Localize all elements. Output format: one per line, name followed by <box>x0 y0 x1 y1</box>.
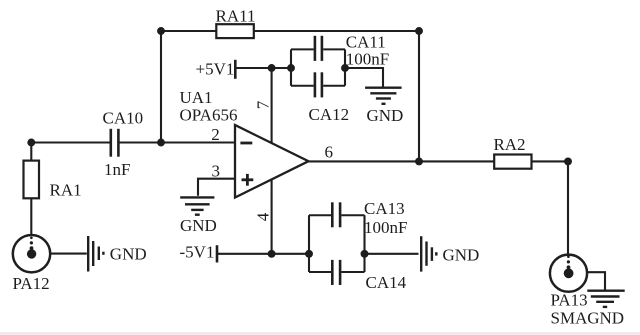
wire: RA1 vertical <box>30 143 32 236</box>
svg-text:CA10: CA10 <box>103 108 144 127</box>
capacitor CA12 <box>291 72 349 124</box>
svg-text:PA12: PA12 <box>13 274 50 293</box>
svg-text:GND: GND <box>180 216 217 235</box>
svg-text:6: 6 <box>325 142 334 161</box>
bottom scan band <box>0 332 640 335</box>
wire: PA12 shield stub <box>50 253 87 255</box>
node: top-left junction <box>157 27 165 35</box>
+5V1 supply terminal <box>196 59 236 78</box>
wire: pin 7 vertical <box>271 68 273 144</box>
ground right of PA12 (sideways) <box>88 236 103 272</box>
wire: top ground branch <box>345 68 383 87</box>
resistor RA1 <box>24 161 82 200</box>
node: inverting input junction <box>157 139 165 147</box>
svg-text:RA11: RA11 <box>216 7 256 26</box>
connector PA12 <box>13 235 51 293</box>
ground SMA GND (below PA13 stub) <box>587 291 624 307</box>
svg-text:PA13: PA13 <box>551 291 588 310</box>
node: top-right junction <box>415 27 423 35</box>
wire: input segment left of CA10 <box>31 141 110 143</box>
capacitor CA10 <box>103 108 144 179</box>
wire: pin 4 vertical <box>271 179 273 254</box>
wire: PA13 vertical drop <box>567 161 569 254</box>
svg-text:UA1: UA1 <box>180 88 213 107</box>
svg-text:CA14: CA14 <box>366 273 407 292</box>
node: -5V pin4 junction <box>268 250 276 258</box>
capacitor CA14 <box>309 260 407 292</box>
wire: PA13 shield stub <box>587 272 605 290</box>
ground below pin 3 <box>180 197 214 214</box>
svg-text:CA13: CA13 <box>364 199 405 218</box>
node: CA13 left bus junction <box>305 250 313 258</box>
wire: feedback left vertical <box>160 31 162 143</box>
node: CA11 right bus junction <box>341 64 349 72</box>
svg-text:RA2: RA2 <box>493 135 525 154</box>
svg-text:CA12: CA12 <box>309 105 350 124</box>
svg-text:3: 3 <box>212 161 221 180</box>
node: input junction <box>27 139 35 147</box>
wire: output pin 6 <box>308 160 568 162</box>
ground top (near CA11) <box>365 88 402 104</box>
wire: CA11/CA12 right bus <box>344 49 346 85</box>
resistor RA2 <box>493 135 531 169</box>
svg-text:2: 2 <box>211 125 220 144</box>
wire: right vertical bus <box>418 31 420 161</box>
node: RA2 output junction <box>564 157 572 165</box>
svg-text:100nF: 100nF <box>346 50 389 69</box>
connector PA13 <box>550 255 624 328</box>
node: +5V pin7 junction <box>268 64 276 72</box>
svg-text:-5V1: -5V1 <box>180 243 215 262</box>
svg-text:GND: GND <box>587 309 624 328</box>
svg-text:RA1: RA1 <box>50 180 82 199</box>
svg-text:OPA656: OPA656 <box>180 106 238 125</box>
svg-text:GND: GND <box>443 246 480 265</box>
wire: CA13/CA14 right bus <box>363 215 365 272</box>
-5V1 supply terminal <box>180 243 218 263</box>
svg-text:4: 4 <box>253 212 272 221</box>
wire: CA11/CA12 left bus <box>290 49 292 85</box>
ground right of CA13/CA14 (sideways) <box>421 236 436 271</box>
wire: lower ground branch <box>365 253 419 255</box>
svg-text:7: 7 <box>253 100 272 109</box>
op-amp UA1 OPA656 <box>180 88 309 197</box>
svg-text:SMA: SMA <box>551 309 589 328</box>
capacitor CA13 <box>309 199 407 237</box>
wire: input segment right of CA10 to pin 2 <box>120 141 236 143</box>
svg-text:+5V1: +5V1 <box>196 59 235 78</box>
svg-text:1nF: 1nF <box>104 160 130 179</box>
svg-text:100nF: 100nF <box>364 218 407 237</box>
wire: -5V1 feed <box>218 253 310 255</box>
node: CA11 left bus junction <box>287 64 295 72</box>
resistor RA11 <box>216 7 256 38</box>
wire: CA13/CA14 left bus <box>308 215 310 272</box>
svg-text:GND: GND <box>367 106 404 125</box>
node: CA13 right bus junction <box>361 250 369 258</box>
node: output junction <box>415 157 423 165</box>
svg-text:GND: GND <box>110 244 147 263</box>
wire: pin 3 to ground <box>198 179 235 196</box>
capacitor CA11 <box>291 33 389 69</box>
wire: +5V1 feed <box>236 67 292 69</box>
wire: top feedback horizontal <box>161 30 419 32</box>
